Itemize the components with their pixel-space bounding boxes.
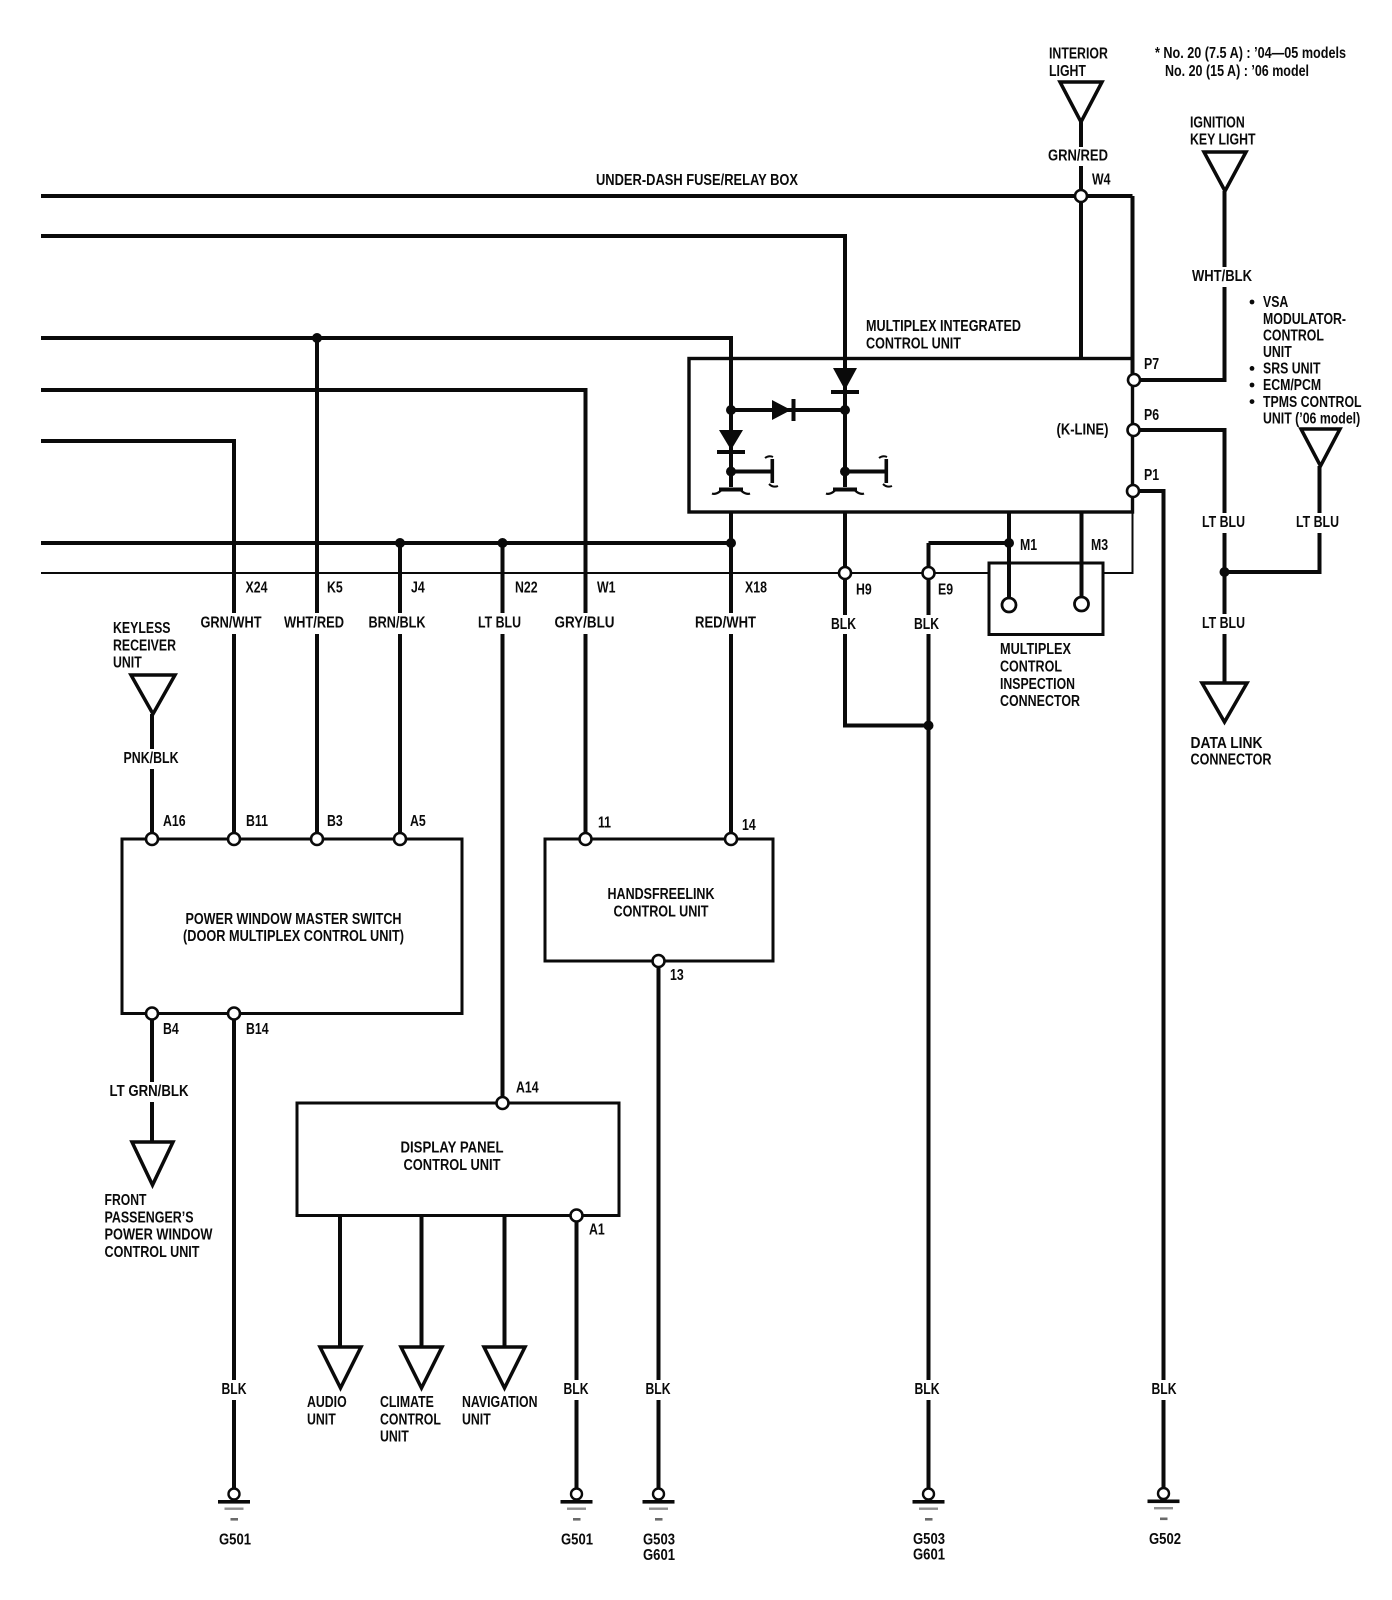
svg-text:N22: N22 xyxy=(515,580,538,597)
junction node LT BLU data link xyxy=(1220,567,1230,577)
svg-text:13: 13 xyxy=(670,967,684,984)
label GRN/WHT xyxy=(196,613,268,634)
svg-text:BLK: BLK xyxy=(831,616,856,633)
pin B14 xyxy=(228,1008,240,1020)
lamp symbol interior light xyxy=(1060,82,1102,122)
svg-text:MULTIPLEX INTEGRATED: MULTIPLEX INTEGRATED xyxy=(866,318,1021,335)
wire bus 1 drop to P7 xyxy=(1131,196,1135,376)
svg-text:(K-LINE): (K-LINE) xyxy=(1057,422,1109,439)
label BLK (pin13) xyxy=(641,1380,675,1400)
svg-text:M1: M1 xyxy=(1020,537,1037,554)
svg-text:B4: B4 xyxy=(163,1021,179,1038)
wire E9 up-corner to M1 xyxy=(929,541,1010,545)
wire X18 RED/WHT vertical xyxy=(729,512,733,839)
ground G503/G601 (E9) xyxy=(923,1489,934,1500)
connector symbol audio unit xyxy=(320,1347,361,1388)
connector symbol TPMS control unit xyxy=(1301,429,1340,466)
pin M3 connector xyxy=(1075,597,1089,611)
svg-text:CONTROL: CONTROL xyxy=(380,1411,441,1428)
svg-text:GRY/BLU: GRY/BLU xyxy=(555,615,615,632)
transistor Q2 (right driver) xyxy=(840,467,850,477)
svg-text:X24: X24 xyxy=(246,580,268,597)
connector symbol data link connector xyxy=(1202,683,1247,722)
svg-text:(DOOR MULTIPLEX CONTROL UNIT): (DOOR MULTIPLEX CONTROL UNIT) xyxy=(183,928,404,945)
diode D2 (pointing right on cross link) xyxy=(772,400,791,420)
svg-text:14: 14 xyxy=(742,817,756,834)
wire MICU internal left branch xyxy=(843,236,847,487)
pin A14 xyxy=(497,1097,509,1109)
label LT BLU (data link) xyxy=(1197,614,1251,634)
label BLK (E9 bottom) xyxy=(908,1380,946,1400)
svg-text:WHT/RED: WHT/RED xyxy=(284,615,344,632)
svg-text:W1: W1 xyxy=(597,580,616,597)
wire bus 6 (BRN/BLK / LT BLU feed) xyxy=(41,541,733,545)
box U3 handsfreelink control unit xyxy=(545,839,773,961)
pin 13 xyxy=(653,955,665,967)
wire MICU internal cross link xyxy=(731,408,845,412)
svg-text:X18: X18 xyxy=(745,580,767,597)
junction node M1 branch xyxy=(1004,538,1014,548)
svg-text:UNIT: UNIT xyxy=(1263,344,1292,361)
label BLK (E9) xyxy=(910,615,943,634)
connector symbol front passenger window unit xyxy=(132,1142,173,1185)
svg-text:BLK: BLK xyxy=(915,1381,940,1398)
svg-text:POWER WINDOW: POWER WINDOW xyxy=(105,1227,214,1244)
wire A1 BLK xyxy=(575,1216,579,1489)
svg-text:TPMS CONTROL: TPMS CONTROL xyxy=(1263,394,1362,411)
wire bus 7 rise to MICU corner xyxy=(1132,512,1134,573)
wire B4 LT GRN/BLK xyxy=(150,1014,154,1143)
label LT BLU (N22) xyxy=(474,613,526,634)
wire bus 1 (under-dash fuse/relay box feed) xyxy=(41,194,1133,198)
svg-text:RED/WHT: RED/WHT xyxy=(695,615,756,632)
pin B4 xyxy=(146,1008,158,1020)
wire bus 5 (GRN/WHT feed) xyxy=(41,439,236,443)
svg-text:UNDER-DASH FUSE/RELAY BOX: UNDER-DASH FUSE/RELAY BOX xyxy=(596,172,798,189)
svg-text:A16: A16 xyxy=(163,813,186,830)
junction node N22 on bus 6 xyxy=(498,538,508,548)
svg-text:IGNITION: IGNITION xyxy=(1190,115,1245,132)
box J1 multiplex control inspection connector xyxy=(989,563,1103,635)
junction node H9/E9 join xyxy=(924,721,934,731)
svg-text:B14: B14 xyxy=(246,1021,269,1038)
label PNK/BLK xyxy=(118,749,186,769)
svg-text:BLK: BLK xyxy=(564,1381,589,1398)
junction node K5 on bus 3 xyxy=(312,333,322,343)
svg-text:KEYLESS: KEYLESS xyxy=(113,620,171,637)
svg-text:K5: K5 xyxy=(327,580,343,597)
label LT GRN/BLK xyxy=(104,1082,196,1102)
svg-text:G501: G501 xyxy=(561,1532,593,1549)
pin A1 xyxy=(571,1210,583,1222)
svg-text:BRN/BLK: BRN/BLK xyxy=(369,615,426,632)
wire E9 BLK vertical xyxy=(927,543,931,1489)
junction node X18 on bus 6 xyxy=(726,538,736,548)
svg-text:AUDIO: AUDIO xyxy=(307,1394,347,1411)
wire A16 PNK/BLK keyless xyxy=(150,714,154,839)
box U4 display panel control unit xyxy=(297,1103,619,1216)
svg-text:INSPECTION: INSPECTION xyxy=(1000,676,1075,693)
svg-text:UNIT: UNIT xyxy=(380,1429,409,1446)
pin H9 xyxy=(839,567,851,579)
svg-text:ECM/PCM: ECM/PCM xyxy=(1263,377,1321,394)
svg-text:PASSENGER’S: PASSENGER’S xyxy=(105,1209,194,1226)
wire WHT/BLK ignition key light xyxy=(1223,191,1227,382)
ground G501 (A1) xyxy=(571,1489,582,1500)
svg-text:No. 20 (15 A) : ’06 model: No. 20 (15 A) : ’06 model xyxy=(1165,63,1309,80)
svg-text:CONTROL UNIT: CONTROL UNIT xyxy=(614,903,709,920)
label BLK (P1 bottom) xyxy=(1146,1380,1182,1400)
ground internal right xyxy=(833,488,857,492)
svg-text:CONTROL UNIT: CONTROL UNIT xyxy=(105,1244,200,1261)
label BLK (A1) xyxy=(559,1380,593,1400)
svg-text:LT BLU: LT BLU xyxy=(478,615,521,632)
wire H9 to E9 join xyxy=(845,724,929,728)
svg-text:BLK: BLK xyxy=(914,616,939,633)
wire X24 GRN/WHT vertical xyxy=(232,441,236,839)
label RED/WHT xyxy=(691,613,760,634)
svg-text:LIGHT: LIGHT xyxy=(1049,63,1086,80)
wire bus 3 (to MICU internal) xyxy=(41,336,733,340)
pin 14 xyxy=(725,833,737,845)
svg-text:DISPLAY PANEL: DISPLAY PANEL xyxy=(401,1140,504,1157)
pin B11 xyxy=(228,833,240,845)
wire N22 LT BLU vertical xyxy=(501,543,505,1103)
wire TPMS LT BLU drop xyxy=(1318,466,1322,574)
svg-text:CONNECTOR: CONNECTOR xyxy=(1191,751,1272,768)
svg-text:MODULATOR-: MODULATOR- xyxy=(1263,311,1346,328)
svg-text:DATA LINK: DATA LINK xyxy=(1191,735,1263,752)
wire bus 7 thin (H9/E9 ground bus) xyxy=(41,572,989,574)
svg-text:CLIMATE: CLIMATE xyxy=(380,1394,434,1411)
wire W1 GRY/BLU vertical xyxy=(584,390,588,839)
lamp symbol ignition key light xyxy=(1204,152,1246,191)
pin A16 xyxy=(146,833,158,845)
svg-text:UNIT: UNIT xyxy=(462,1411,491,1428)
pin A5 xyxy=(394,833,406,845)
svg-text:P7: P7 xyxy=(1144,356,1159,373)
pin E9 xyxy=(923,567,935,579)
wire K5 WHT/RED vertical xyxy=(315,338,319,839)
svg-text:11: 11 xyxy=(598,815,611,832)
svg-text:G501: G501 xyxy=(219,1532,251,1549)
svg-text:P1: P1 xyxy=(1144,467,1159,484)
label BLK (H9) xyxy=(827,615,860,634)
svg-text:GRN/RED: GRN/RED xyxy=(1048,148,1108,165)
svg-text:A1: A1 xyxy=(589,1222,605,1239)
svg-text:LT GRN/BLK: LT GRN/BLK xyxy=(110,1083,189,1100)
svg-text:UNIT (’06 model): UNIT (’06 model) xyxy=(1263,410,1360,427)
svg-text:CONTROL: CONTROL xyxy=(1000,658,1062,675)
svg-text:BLK: BLK xyxy=(1152,1381,1177,1398)
svg-text:P6: P6 xyxy=(1144,407,1159,424)
svg-text:* No. 20 (7.5 A) : ’04—05 mode: * No. 20 (7.5 A) : ’04—05 models xyxy=(1155,45,1346,62)
label WHT/BLK xyxy=(1188,267,1256,287)
label WHT/RED xyxy=(280,613,350,634)
svg-text:W4: W4 xyxy=(1092,172,1111,189)
pin B3 xyxy=(311,833,323,845)
svg-text:CONNECTOR: CONNECTOR xyxy=(1000,693,1080,710)
connector symbol keyless receiver unit xyxy=(131,675,175,714)
wire stub to audio unit xyxy=(338,1216,342,1348)
box U2 power window master switch xyxy=(122,839,462,1014)
svg-text:NAVIGATION: NAVIGATION xyxy=(462,1394,538,1411)
wire bus 2 (to MICU diode) xyxy=(41,234,847,238)
ground G503/G601 (pin13) xyxy=(653,1489,664,1500)
svg-text:UNIT: UNIT xyxy=(307,1411,336,1428)
pin M1 connector xyxy=(1002,598,1016,612)
ground G502 (P1) xyxy=(1158,1488,1169,1499)
diode D1 (cathode down on right branch) xyxy=(833,368,857,390)
svg-text:MULTIPLEX: MULTIPLEX xyxy=(1000,641,1071,658)
svg-text:G601: G601 xyxy=(643,1547,675,1564)
wire pin13 BLK xyxy=(657,961,661,1489)
label LT BLU (P6) xyxy=(1197,513,1251,533)
wire H9 BLK vertical xyxy=(843,512,847,728)
svg-text:J4: J4 xyxy=(411,580,425,597)
svg-text:LT BLU: LT BLU xyxy=(1296,514,1339,531)
connector symbol navigation unit xyxy=(484,1347,525,1388)
label GRY/BLU xyxy=(551,613,618,634)
wire MICU internal right branch xyxy=(729,338,733,487)
box U1 multiplex integrated control unit xyxy=(689,359,1133,513)
ground internal left xyxy=(719,488,743,492)
label BLK (B14) xyxy=(217,1380,251,1400)
label GRN/RED xyxy=(1044,147,1112,166)
pin P7 xyxy=(1128,374,1140,386)
svg-text:G601: G601 xyxy=(913,1546,945,1563)
svg-text:PNK/BLK: PNK/BLK xyxy=(124,750,179,767)
svg-text:UNIT: UNIT xyxy=(113,655,142,672)
pin P6 xyxy=(1128,424,1140,436)
label LT BLU (TPMS) xyxy=(1291,513,1345,533)
svg-text:CONTROL: CONTROL xyxy=(1263,327,1324,344)
svg-text:FRONT: FRONT xyxy=(105,1192,147,1209)
svg-text:B3: B3 xyxy=(327,813,343,830)
wire stub to navigation unit xyxy=(503,1216,507,1348)
svg-text:WHT/BLK: WHT/BLK xyxy=(1192,268,1252,285)
svg-text:A14: A14 xyxy=(516,1080,539,1097)
wire stub to climate control unit xyxy=(420,1216,424,1348)
svg-text:RECEIVER: RECEIVER xyxy=(113,637,176,654)
wire M3 vertical xyxy=(1080,512,1084,604)
svg-text:KEY LIGHT: KEY LIGHT xyxy=(1190,131,1256,148)
svg-text:INTERIOR: INTERIOR xyxy=(1049,46,1108,63)
svg-text:B11: B11 xyxy=(246,813,268,830)
svg-text:H9: H9 xyxy=(856,582,872,599)
svg-text:LT BLU: LT BLU xyxy=(1202,615,1245,632)
wire GRN/RED interior light xyxy=(1079,122,1083,359)
svg-text:A5: A5 xyxy=(410,813,426,830)
svg-text:VSA: VSA xyxy=(1263,294,1289,311)
wire P1 BLK xyxy=(1139,489,1166,493)
svg-text:GRN/WHT: GRN/WHT xyxy=(201,615,262,632)
junction node MICU left-cross xyxy=(726,405,736,415)
wire M1 vertical xyxy=(1007,512,1011,605)
ground G501 (B14) xyxy=(229,1489,240,1500)
junction node MICU right-cross xyxy=(840,405,850,415)
svg-text:CONTROL UNIT: CONTROL UNIT xyxy=(866,336,961,353)
transistor Q1 (left driver) xyxy=(726,467,736,477)
svg-text:M3: M3 xyxy=(1091,537,1108,554)
svg-text:LT BLU: LT BLU xyxy=(1202,514,1245,531)
svg-text:HANDSFREELINK: HANDSFREELINK xyxy=(608,886,715,903)
pin W4 xyxy=(1075,190,1087,202)
wire B14 BLK xyxy=(232,1014,236,1489)
svg-text:SRS UNIT: SRS UNIT xyxy=(1263,361,1321,378)
wire J4 BRN/BLK vertical xyxy=(398,543,402,839)
svg-text:BLK: BLK xyxy=(646,1381,671,1398)
wire bus 4 (GRY/BLU feed) xyxy=(41,388,588,392)
svg-text:POWER WINDOW MASTER SWITCH: POWER WINDOW MASTER SWITCH xyxy=(186,911,402,928)
pin P1 xyxy=(1127,485,1139,497)
label BRN/BLK xyxy=(364,613,430,634)
wire P6 K-line to junction xyxy=(1140,428,1227,432)
diode D3 (cathode down on left branch) xyxy=(719,430,743,450)
svg-text:E9: E9 xyxy=(938,582,953,599)
svg-text:BLK: BLK xyxy=(222,1381,247,1398)
pin 11 xyxy=(580,833,592,845)
svg-text:G502: G502 xyxy=(1149,1531,1181,1548)
svg-text:CONTROL UNIT: CONTROL UNIT xyxy=(404,1157,501,1174)
connector symbol climate control unit xyxy=(401,1347,442,1388)
junction node J4 on bus 6 xyxy=(395,538,405,548)
